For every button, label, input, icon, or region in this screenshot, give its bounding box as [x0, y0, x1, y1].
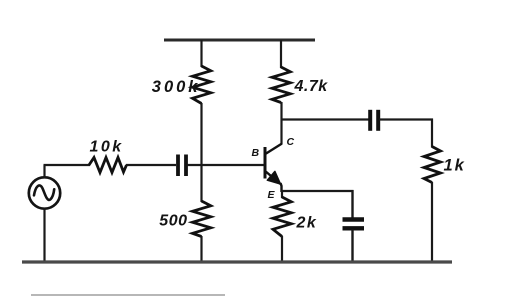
wire emitter bend [281, 183, 282, 192]
wire down to R5 1k [431, 119, 433, 148]
transistor Q1 collector lead [265, 144, 283, 155]
decorative gray underline [31, 294, 225, 296]
wire collector node to C2 [281, 118, 370, 120]
transistor Q1 emitter arrow [267, 171, 280, 184]
wire C2 to load [379, 118, 433, 120]
wire R2 bottom to ground rail [200, 236, 202, 262]
capacitor C2 output coupling [368, 110, 372, 131]
wire top rail to R1 300k [200, 40, 202, 67]
svg-text:1k: 1k [444, 157, 466, 175]
AC source VS [29, 177, 60, 208]
wire source top [43, 165, 45, 178]
transistor Q1 emitter lead [265, 171, 281, 185]
capacitor C3 emitter bypass [343, 217, 365, 221]
svg-text:4.7k: 4.7k [294, 78, 329, 95]
resistor R3 4.7k [272, 67, 290, 103]
wire source to R4 10k [44, 164, 91, 166]
svg-text:500: 500 [159, 213, 187, 230]
wire R5 bottom to ground rail [431, 182, 433, 262]
wire R1 bottom to base node [200, 103, 202, 202]
wire R3 bottom to collector [280, 102, 282, 144]
transistor Q1 base bar [264, 147, 267, 179]
wire C3 to ground rail [351, 230, 353, 263]
wire R6 bottom to ground rail [281, 236, 283, 262]
VCC top rail [164, 39, 315, 42]
svg-text:B: B [252, 147, 260, 159]
wire emitter to bypass branch [281, 190, 354, 192]
svg-text:E: E [268, 189, 276, 201]
svg-text:10k: 10k [90, 139, 124, 156]
wire top rail to R3 4.7k [280, 40, 282, 68]
wire down to C3 [351, 190, 353, 218]
svg-text:300k: 300k [152, 78, 201, 96]
wire source bottom to ground rail [43, 209, 45, 263]
resistor R6 2k [273, 197, 291, 237]
wire C1 to base [188, 164, 266, 166]
wire emitter node to R6 2k [281, 191, 283, 198]
wire R4 to C1 [126, 164, 176, 166]
resistor R4 10k [89, 158, 127, 173]
resistor R2 500 [193, 201, 211, 237]
svg-text:2k: 2k [296, 215, 318, 232]
capacitor C1 input coupling [176, 155, 180, 177]
svg-text:C: C [287, 136, 295, 148]
ground rail [22, 260, 452, 263]
resistor R1 300k [193, 66, 211, 104]
resistor R5 1k [424, 147, 441, 183]
